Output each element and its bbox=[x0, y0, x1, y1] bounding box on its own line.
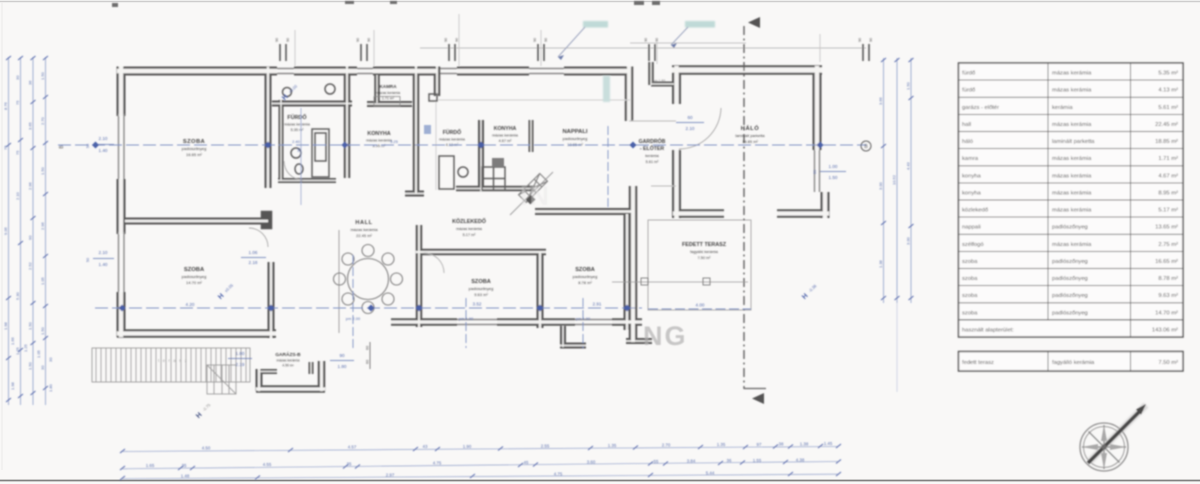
door arc halo bbox=[679, 108, 721, 149]
room label gardrob eloter bbox=[639, 137, 666, 164]
cyan highlight vertical bbox=[603, 76, 610, 102]
stacked dim 1.80/2.19 garage bbox=[228, 351, 252, 367]
wall kamra bottom bbox=[367, 101, 412, 107]
wall furdo1 left bbox=[279, 100, 284, 181]
sink corner top bbox=[283, 88, 292, 97]
window tick pair x866 bbox=[863, 44, 869, 61]
bathtub furdo2 bbox=[439, 156, 454, 189]
section line A-A bbox=[744, 17, 766, 404]
stairs small box with diagonal bbox=[207, 365, 236, 394]
leader line note 1 bbox=[558, 27, 585, 57]
wall furdo1 top bbox=[272, 101, 352, 107]
wall corridor vertical x416 upper bbox=[413, 67, 420, 195]
stacked dim 1.06/2.18 bbox=[241, 250, 266, 265]
door arc szoba2 bbox=[249, 228, 268, 247]
vertical dashed dim x353 bbox=[352, 255, 354, 350]
dining table bbox=[334, 245, 403, 314]
wall furdo2/konyha2 divider bbox=[478, 120, 484, 191]
compass rose outer circle bbox=[1080, 423, 1128, 471]
wall nappali right vertical upper bbox=[625, 67, 634, 122]
wall halo bottom right bbox=[777, 209, 829, 218]
window tick pair x283 bbox=[280, 44, 286, 61]
wall garage room right bbox=[318, 361, 326, 391]
wall left exterior mid bbox=[117, 179, 126, 234]
wall szoba2 bottom bbox=[117, 329, 276, 338]
wall garage room bottom bbox=[256, 385, 325, 393]
leader line note 2 bbox=[671, 27, 688, 45]
wall kamra right stub bbox=[374, 75, 380, 103]
bottom dim row line 3 bbox=[122, 474, 838, 479]
wc furdo1 bbox=[295, 164, 303, 174]
eloter thin lines bbox=[629, 121, 676, 186]
stacked dim 90/1.80 garage right bbox=[330, 353, 354, 369]
sink furdo1 bbox=[291, 148, 301, 158]
wall left exterior bottom bbox=[117, 292, 126, 337]
right dim column 2 tail bbox=[896, 303, 898, 392]
room label kozlekedo bbox=[452, 218, 486, 237]
thin verticals to top ticks bbox=[295, 14, 820, 66]
wall szoba3/szoba4 divider bbox=[537, 252, 544, 328]
stacked dim 2.10/1.40 upper left bbox=[86, 136, 114, 153]
room label konyha2 bbox=[492, 126, 519, 143]
window tick pair x541 bbox=[538, 44, 544, 61]
marker H +0.00 szoba1 bbox=[281, 83, 300, 102]
door jamb block szoba2 bbox=[262, 212, 271, 228]
wall gardrob bottom cap bbox=[626, 338, 652, 344]
diamonds on line y308 bbox=[118, 304, 630, 311]
wall konyha2 bottom bbox=[456, 186, 535, 192]
wall top exterior middle A bbox=[294, 67, 357, 76]
washing machine blue mark bbox=[424, 125, 431, 134]
window left wall upper bbox=[119, 114, 125, 181]
kitchen counter konyha2 bbox=[482, 167, 505, 190]
row3 tick slashes bbox=[120, 472, 841, 480]
stacked dim 1.00/1.50 halo right bbox=[813, 164, 846, 180]
wall szoba4 bottom bbox=[497, 318, 575, 326]
wall halo right upper bbox=[813, 66, 822, 150]
wall szoba4 right vertical bbox=[624, 214, 631, 330]
marker H -0.36 terasz right bbox=[801, 283, 819, 301]
right dim column 1 bbox=[883, 58, 885, 303]
window W2 top bbox=[357, 69, 375, 74]
vertical dashed dim x466 bbox=[465, 298, 467, 348]
cyan highlight note 2 bbox=[685, 21, 715, 28]
window halo right bbox=[815, 150, 820, 192]
bathtub furdo1 bbox=[283, 84, 506, 190]
row2 tick slashes bbox=[120, 460, 841, 471]
cyan highlight note 1 bbox=[583, 21, 608, 28]
vertical dashed dim x608 nappali bbox=[607, 126, 609, 210]
vertical dim line x301 furdo bbox=[297, 108, 301, 205]
window tick pair x652 bbox=[649, 44, 655, 61]
room label nappali bbox=[562, 129, 587, 147]
wall szoba2 right bbox=[268, 262, 275, 338]
window W1 top bbox=[277, 69, 296, 74]
wall furdo1 bottom bbox=[278, 178, 336, 183]
room label hall bbox=[350, 220, 378, 238]
compass rose inner circle bbox=[1084, 427, 1125, 468]
terasz table text bbox=[962, 360, 1178, 366]
chimney diagonal symbol bbox=[519, 174, 548, 203]
nappali inner thin lines bbox=[436, 100, 630, 190]
wall corridor vertical x419 lower bbox=[416, 225, 423, 327]
room label furdo1 bbox=[284, 114, 311, 132]
wall kamra left bbox=[344, 67, 351, 179]
room label fedett terasz bbox=[682, 242, 727, 260]
hall thin partition line bbox=[338, 230, 340, 333]
window tick pair x452 bbox=[449, 44, 455, 61]
compass needle bbox=[1088, 409, 1142, 463]
wall szoba4 bottom right corner bbox=[612, 318, 642, 326]
table row lines bbox=[959, 80, 1184, 320]
top edge text specks bbox=[112, 1, 660, 7]
terrace fedett terasz outline bbox=[648, 220, 751, 310]
wall szoba1 right bbox=[265, 67, 272, 188]
room label szoba3 bbox=[469, 279, 494, 297]
compass needle shadow bbox=[1090, 405, 1146, 461]
stacked dim 2.10/1.40 lower left bbox=[86, 250, 114, 267]
table column lines bbox=[1048, 63, 1131, 337]
room label halo bbox=[735, 124, 765, 144]
stacked dim 60/2.10 halo left bbox=[676, 115, 704, 131]
wall top exterior left room bbox=[117, 67, 277, 76]
window left wall lower bbox=[119, 232, 125, 294]
wall gardrob top horizontal y214 bbox=[535, 208, 633, 215]
compass spokes bbox=[1082, 425, 1126, 469]
compass needle arrowhead bbox=[1136, 404, 1146, 415]
wall garage room left jamb bbox=[256, 369, 263, 391]
wall gardrob vertical x633 bbox=[629, 186, 638, 342]
compass hub bbox=[1101, 444, 1106, 449]
wall top exterior middle B bbox=[373, 67, 437, 76]
left col tick slashes bbox=[6, 56, 48, 402]
room label szoba4 bbox=[573, 267, 598, 285]
door arc szoba3 bbox=[424, 253, 444, 273]
wall left exterior upper bbox=[117, 67, 126, 117]
left dim column 4 bbox=[45, 57, 47, 405]
thin extension line top short bbox=[630, 42, 746, 44]
wall szoba3 bottom bbox=[391, 318, 457, 326]
terasz table column lines bbox=[1047, 352, 1049, 372]
area table main box bbox=[959, 63, 1184, 337]
wall white cores bbox=[117, 69, 277, 73]
stairs hatch strip bbox=[92, 348, 250, 382]
window W3 top bbox=[437, 69, 459, 74]
kamra value box bbox=[374, 97, 400, 107]
center line B-B horizontal y145 bbox=[58, 144, 866, 146]
wall top nappali bbox=[564, 67, 629, 76]
frame top bbox=[0, 1, 1200, 3]
right col tick slashes bbox=[881, 58, 914, 300]
room label szoba1 bbox=[182, 139, 207, 157]
frame bottom bbox=[0, 480, 1200, 482]
wall konyha2 right bbox=[529, 120, 534, 152]
D-D line through terrace bbox=[612, 278, 748, 285]
node B right circle bbox=[861, 141, 871, 151]
wall corridor corner bbox=[405, 191, 424, 197]
wall eloter niche horizontal bbox=[651, 82, 674, 87]
sink furdo2 bbox=[458, 167, 468, 177]
fixture furdo2 top bbox=[429, 94, 437, 101]
marker H -0.75 garden bbox=[195, 402, 213, 420]
chimney dark diamond bbox=[526, 195, 536, 205]
wall halo left upper bbox=[672, 66, 681, 104]
wall furdo2 left jut bbox=[434, 67, 441, 97]
left dim column 2 bbox=[20, 57, 22, 405]
wall garage room step bbox=[259, 369, 277, 374]
marker H +0.05 hall bbox=[217, 282, 236, 301]
vertical dim line x370 garage bbox=[366, 342, 371, 369]
right dim column 3 bbox=[910, 58, 912, 303]
left dim column 1 bbox=[8, 57, 10, 405]
room label konyha1 bbox=[366, 131, 393, 148]
row1 tick slashes bbox=[120, 444, 841, 453]
door arc furdo1 bbox=[284, 161, 303, 180]
room label szoba2 bbox=[182, 267, 207, 285]
window tick pair x364 bbox=[361, 44, 367, 61]
table cell texts bbox=[962, 71, 1178, 334]
wall halo right lower corner bbox=[821, 192, 830, 218]
chimney leader diagonal line bbox=[510, 172, 553, 215]
terrace dim line y309 bbox=[648, 308, 751, 310]
wall top exterior middle C bbox=[457, 67, 529, 76]
wall szoba1/szoba2 divider bbox=[125, 218, 268, 225]
wall szoba4 lower left L bbox=[560, 326, 586, 347]
window szoba3 bottom bbox=[457, 320, 497, 325]
room label furdo2 bbox=[439, 129, 466, 147]
room label kamra bbox=[376, 84, 400, 101]
sink kamra wall bbox=[325, 84, 335, 94]
center line lower horizontal y308 bbox=[95, 307, 642, 309]
compass petals bbox=[1082, 425, 1126, 469]
window szoba4 bottom bbox=[575, 320, 612, 325]
terasz table box bbox=[959, 352, 1184, 372]
wall garage room top stub bbox=[309, 362, 314, 374]
wall halo bottom left bbox=[673, 209, 724, 218]
right dim column 2 bbox=[896, 58, 898, 303]
chairs around table bbox=[362, 245, 374, 257]
bottom dim row line 1 bbox=[122, 447, 838, 452]
wall eloter vertical stub bbox=[648, 62, 654, 85]
wall szoba3 top bbox=[416, 249, 546, 256]
wall halo left lower bbox=[672, 150, 681, 218]
diamonds on line y145 bbox=[92, 141, 824, 148]
section arrow bottom bbox=[752, 393, 764, 404]
left dim column 3 bbox=[32, 57, 34, 405]
window W4 top bbox=[529, 69, 566, 74]
wall halo top bbox=[672, 65, 822, 75]
thin extension line top long bbox=[420, 47, 866, 49]
vertical dashed dim x583 bbox=[582, 298, 584, 348]
bottom dim row line 2 bbox=[122, 462, 838, 469]
section arrow top bbox=[748, 17, 760, 28]
